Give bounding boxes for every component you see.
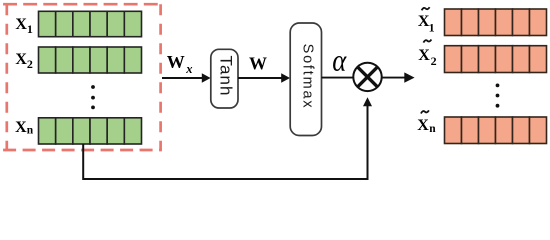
Softmax block [290,23,321,136]
dashed input box right edge [159,4,162,150]
svg-text:n: n [429,123,436,135]
vertical ellipsis right [496,84,500,108]
svg-text:X: X [417,117,429,134]
tilde over Xn out [421,110,429,113]
wire input to Tanh [162,77,203,79]
svg-text:x: x [185,62,192,76]
input row Xn cells [39,118,142,144]
svg-text:n: n [27,125,34,137]
wire Softmax to multiplier [322,77,355,79]
svg-text:X: X [418,47,430,64]
dashed input box top edge [3,3,162,6]
svg-text:2: 2 [27,57,33,71]
Tanh block [211,49,238,108]
output row X~2 cells [445,46,547,73]
svg-text:W: W [167,52,185,72]
svg-text:1: 1 [429,21,435,35]
input row X1 cells [39,11,142,36]
svg-text:2: 2 [431,54,437,68]
svg-text:X: X [15,16,27,33]
multiplier X stroke 1 [358,67,378,87]
tilde over X2 out [423,40,431,43]
input row X2 cells [39,47,142,73]
output row X~1 cells [445,9,547,36]
multiplier X stroke 2 [358,67,378,87]
svg-text:X: X [15,51,27,68]
feedback wire from Xn row to multiplier [83,106,367,179]
arrowhead into Softmax [281,73,290,82]
wire multiplier to output [382,77,406,79]
tilde over X1 out [422,7,430,10]
svg-text:X: X [15,119,27,136]
arrowhead into multiplier bottom [363,97,372,106]
wire Tanh to Softmax [238,77,283,79]
multiplier circle [353,63,381,91]
arrowhead to output [404,72,414,82]
svg-text:α: α [332,44,347,78]
dashed input box bottom edge [3,149,162,152]
arrowhead into Tanh [202,73,211,82]
dashed input box left edge [5,4,8,150]
svg-text:Tanh: Tanh [216,56,235,97]
vertical ellipsis left [91,85,95,109]
output row X~n cells [445,117,547,144]
svg-text:Softmax: Softmax [299,44,315,110]
svg-text:W: W [249,54,267,74]
svg-text:1: 1 [27,22,33,36]
